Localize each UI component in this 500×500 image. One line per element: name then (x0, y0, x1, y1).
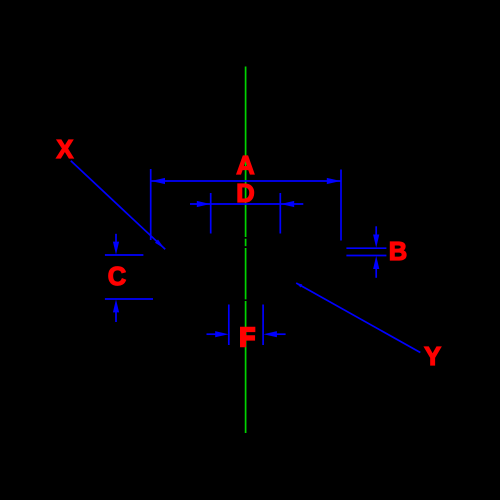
dim D right extension line (279, 193, 281, 234)
dim B lower arrow stem (375, 262, 377, 278)
dim F left arrowhead (215, 331, 228, 337)
dim B upper arrowhead (373, 235, 379, 248)
leader Y arrowhead (296, 283, 302, 288)
dim F right extension line (262, 305, 264, 346)
svg-text:B: B (389, 238, 407, 266)
dim B bottom reference line (346, 255, 386, 257)
leader X arrowhead (155, 240, 165, 249)
svg-text:C: C (108, 263, 126, 291)
dim A right arrowhead (327, 178, 341, 184)
svg-text:D: D (236, 180, 254, 208)
dim C bottom reference line (105, 298, 153, 300)
svg-text:X: X (56, 136, 73, 164)
dim C lower arrowhead (113, 299, 119, 312)
centerline (green, dashed) (245, 67, 247, 434)
dim D right arrowhead (281, 201, 294, 207)
dim C top reference line (105, 254, 143, 256)
leader line X (71, 161, 165, 250)
svg-text:F: F (240, 324, 256, 352)
dim A right extension line (340, 170, 342, 241)
dim D dimension line (190, 203, 303, 205)
dim D left arrowhead (197, 201, 210, 207)
dim F right arrow tail (270, 333, 286, 335)
dim A left arrowhead (151, 178, 165, 184)
svg-text:A: A (236, 152, 254, 180)
dim F left arrow tail (207, 333, 223, 335)
dim C upper arrow stem (115, 234, 117, 248)
dim A left extension line (150, 169, 152, 240)
leader line Y (296, 283, 420, 353)
dim C lower arrow stem (115, 306, 117, 322)
dim F right arrowhead (264, 331, 277, 337)
dim D left extension line (210, 193, 212, 234)
svg-text:Y: Y (424, 343, 441, 371)
dim B top reference line (346, 247, 386, 249)
dim A dimension line (151, 180, 341, 182)
dim B lower arrowhead (373, 256, 379, 269)
dim B upper arrow stem (375, 226, 377, 241)
dim C upper arrowhead (113, 242, 119, 255)
dim F left extension line (228, 305, 230, 346)
